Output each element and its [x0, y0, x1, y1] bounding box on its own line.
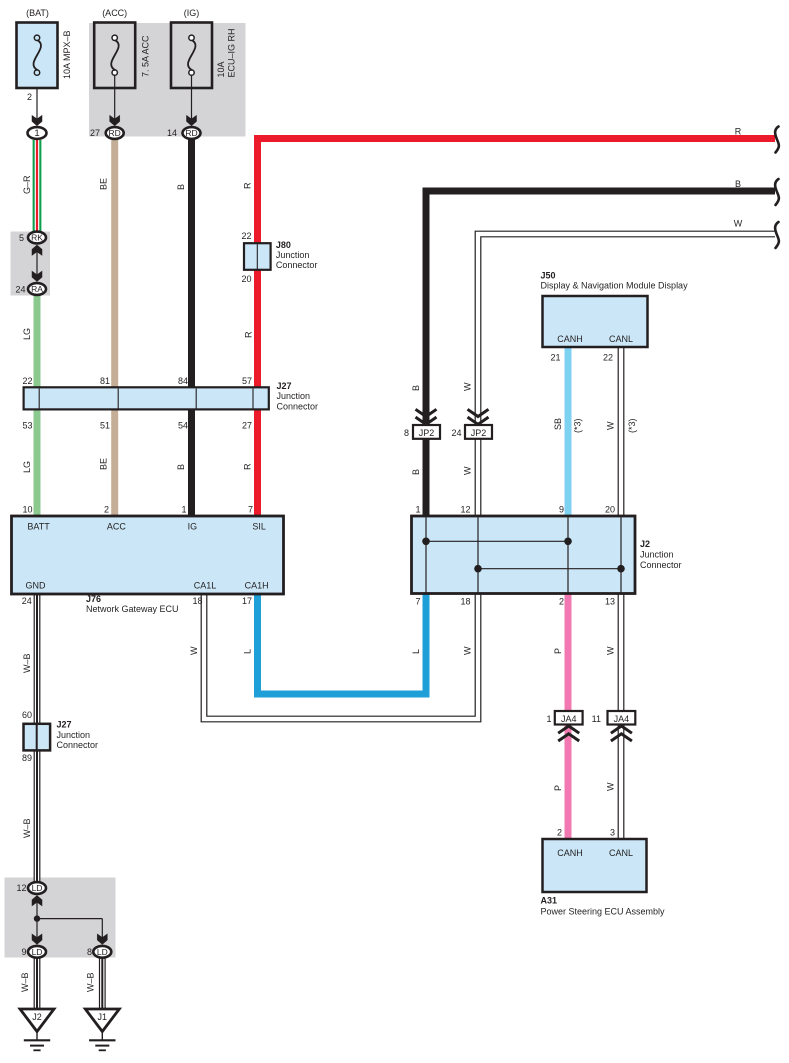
svg-text:LG: LG — [22, 328, 32, 340]
svg-text:1: 1 — [546, 714, 551, 724]
svg-text:B: B — [176, 464, 186, 470]
svg-text:53: 53 — [22, 421, 32, 431]
svg-text:13: 13 — [605, 597, 615, 607]
svg-text:60: 60 — [22, 710, 32, 720]
svg-text:Junction: Junction — [57, 730, 91, 740]
svg-text:BATT: BATT — [27, 522, 50, 532]
svg-text:J80: J80 — [276, 240, 291, 250]
svg-text:24: 24 — [451, 428, 461, 438]
svg-text:17: 17 — [242, 596, 252, 606]
svg-text:10A MPX–B: 10A MPX–B — [62, 30, 72, 79]
svg-text:22: 22 — [241, 231, 251, 241]
svg-text:Display & Navigation Module Di: Display & Navigation Module Display — [541, 281, 689, 291]
svg-text:Power Steering ECU Assembly: Power Steering ECU Assembly — [541, 906, 666, 916]
svg-text:CA1L: CA1L — [194, 581, 217, 591]
svg-text:18: 18 — [460, 597, 470, 607]
svg-text:CANH: CANH — [557, 848, 583, 858]
svg-text:9: 9 — [559, 505, 564, 515]
svg-text:RD: RD — [185, 128, 197, 138]
svg-text:W–B: W–B — [20, 972, 30, 992]
svg-text:CANL: CANL — [609, 334, 633, 344]
svg-text:7: 7 — [415, 597, 420, 607]
svg-text:8: 8 — [87, 947, 92, 957]
svg-text:Junction: Junction — [277, 391, 311, 401]
svg-text:W: W — [734, 219, 743, 229]
svg-text:51: 51 — [100, 421, 110, 431]
svg-text:CANL: CANL — [609, 848, 633, 858]
svg-text:L: L — [411, 649, 421, 654]
svg-text:P: P — [553, 785, 563, 791]
svg-text:SB: SB — [553, 418, 563, 430]
svg-text:W: W — [463, 646, 473, 655]
svg-text:R: R — [243, 463, 253, 470]
svg-text:2: 2 — [104, 505, 109, 515]
svg-text:GND: GND — [26, 581, 47, 591]
svg-text:W: W — [189, 646, 199, 655]
svg-text:20: 20 — [241, 274, 251, 284]
svg-text:81: 81 — [100, 376, 110, 386]
svg-text:24: 24 — [22, 596, 32, 606]
svg-text:20: 20 — [605, 505, 615, 515]
svg-text:54: 54 — [178, 421, 188, 431]
svg-text:(*3): (*3) — [627, 418, 637, 433]
svg-text:1: 1 — [415, 505, 420, 515]
svg-text:1: 1 — [34, 128, 39, 139]
svg-text:7. 5A ACC: 7. 5A ACC — [141, 35, 151, 77]
svg-text:LG: LG — [22, 461, 32, 473]
svg-text:B: B — [411, 469, 421, 475]
svg-text:10A: 10A — [216, 61, 226, 77]
svg-text:5: 5 — [19, 233, 24, 243]
svg-text:ECU–IG RH: ECU–IG RH — [227, 28, 237, 77]
svg-text:27: 27 — [90, 128, 100, 138]
svg-text:ACC: ACC — [107, 522, 127, 532]
svg-text:SIL: SIL — [252, 522, 266, 532]
svg-text:R: R — [243, 182, 253, 189]
svg-text:LD: LD — [97, 947, 108, 957]
svg-text:12: 12 — [460, 505, 470, 515]
svg-text:W: W — [606, 782, 616, 791]
svg-text:Network Gateway ECU: Network Gateway ECU — [86, 604, 179, 614]
svg-text:J27: J27 — [277, 381, 292, 391]
svg-text:11: 11 — [592, 714, 601, 724]
svg-text:2: 2 — [27, 92, 32, 102]
svg-text:7: 7 — [248, 505, 253, 515]
svg-text:Connector: Connector — [640, 560, 682, 570]
svg-text:W–B: W–B — [22, 653, 32, 673]
svg-text:10: 10 — [22, 505, 32, 515]
svg-text:LD: LD — [32, 883, 43, 893]
svg-text:W: W — [463, 466, 473, 475]
svg-text:RA: RA — [31, 284, 43, 294]
svg-text:(BAT): (BAT) — [26, 8, 49, 18]
svg-text:J76: J76 — [86, 594, 101, 604]
svg-text:3: 3 — [610, 828, 615, 838]
svg-text:CA1H: CA1H — [245, 581, 269, 591]
svg-text:(IG): (IG) — [184, 8, 200, 18]
svg-text:8: 8 — [404, 428, 409, 438]
svg-text:P: P — [553, 648, 563, 654]
svg-text:J2: J2 — [32, 1012, 42, 1022]
svg-text:Connector: Connector — [57, 740, 99, 750]
svg-text:W–B: W–B — [86, 972, 96, 992]
svg-text:JA4: JA4 — [561, 714, 577, 724]
svg-text:G–R: G–R — [22, 175, 32, 194]
svg-text:JP2: JP2 — [419, 428, 435, 438]
svg-text:84: 84 — [178, 376, 188, 386]
svg-text:2: 2 — [557, 828, 562, 838]
svg-text:RK: RK — [31, 233, 43, 243]
svg-text:57: 57 — [242, 376, 252, 386]
svg-text:(*3): (*3) — [573, 418, 583, 433]
svg-text:B: B — [176, 184, 186, 190]
svg-text:W: W — [606, 421, 616, 430]
svg-text:J1: J1 — [98, 1012, 108, 1022]
svg-text:9: 9 — [21, 947, 26, 957]
svg-text:Junction: Junction — [640, 550, 674, 560]
svg-text:Connector: Connector — [276, 260, 318, 270]
svg-text:Connector: Connector — [277, 401, 319, 411]
svg-text:B: B — [735, 179, 741, 189]
svg-text:12: 12 — [16, 883, 26, 893]
svg-text:27: 27 — [242, 421, 252, 431]
svg-text:J50: J50 — [541, 271, 556, 281]
svg-text:JA4: JA4 — [614, 714, 630, 724]
svg-text:89: 89 — [22, 753, 32, 763]
svg-text:JP2: JP2 — [471, 428, 487, 438]
svg-text:R: R — [735, 127, 742, 137]
svg-text:B: B — [411, 385, 421, 391]
svg-text:22: 22 — [22, 376, 32, 386]
svg-text:J27: J27 — [57, 720, 72, 730]
svg-text:22: 22 — [603, 353, 613, 363]
svg-text:IG: IG — [188, 522, 198, 532]
svg-text:14: 14 — [167, 128, 177, 138]
svg-text:RD: RD — [109, 128, 121, 138]
svg-text:(ACC): (ACC) — [102, 8, 127, 18]
svg-text:21: 21 — [550, 353, 560, 363]
svg-text:BE: BE — [99, 178, 109, 190]
svg-text:A31: A31 — [541, 896, 558, 906]
svg-text:LD: LD — [32, 947, 43, 957]
svg-text:W: W — [463, 382, 473, 391]
svg-text:18: 18 — [192, 596, 202, 606]
svg-text:L: L — [243, 649, 253, 654]
svg-text:W–B: W–B — [22, 818, 32, 838]
svg-text:W: W — [606, 646, 616, 655]
svg-text:R: R — [244, 331, 254, 338]
svg-text:Junction: Junction — [276, 250, 310, 260]
svg-text:J2: J2 — [640, 539, 650, 549]
svg-text:1: 1 — [181, 505, 186, 515]
svg-text:2: 2 — [559, 597, 564, 607]
svg-text:24: 24 — [15, 285, 25, 295]
svg-text:BE: BE — [99, 458, 109, 470]
svg-text:CANH: CANH — [557, 334, 583, 344]
